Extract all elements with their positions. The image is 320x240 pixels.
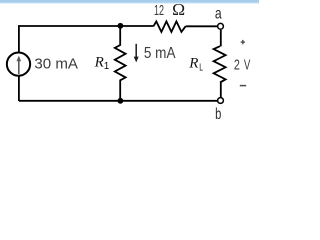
svg-text:30 mA: 30 mA	[34, 55, 78, 72]
junction dot bottom	[118, 98, 124, 104]
svg-text:L: L	[199, 63, 203, 74]
minus sign	[240, 85, 246, 87]
label RL	[188, 55, 203, 73]
svg-text:12: 12	[154, 2, 164, 19]
svg-text:R: R	[188, 55, 198, 71]
svg-text:Ω: Ω	[172, 0, 185, 19]
current arrow 5 mA	[134, 44, 139, 63]
label R1	[94, 54, 110, 72]
node a	[218, 23, 224, 29]
label b	[215, 106, 221, 123]
label a	[215, 6, 222, 23]
wire top left segment	[19, 26, 121, 101]
wire bottom segment	[19, 100, 217, 102]
label 12 ohm	[154, 0, 185, 19]
resistor RL	[214, 46, 226, 82]
wire top middle segment	[120, 25, 153, 27]
svg-text:2: 2	[234, 56, 240, 73]
resistor 12 ohm	[153, 21, 185, 32]
label 2 V	[234, 56, 251, 73]
svg-text:5 mA: 5 mA	[144, 45, 176, 62]
current source I 30 mA	[7, 52, 30, 75]
wire node a to RL	[220, 30, 222, 47]
label 5 mA	[144, 45, 176, 62]
svg-text:1: 1	[104, 61, 110, 72]
resistor R1	[115, 26, 126, 101]
node b	[218, 98, 224, 104]
plus sign	[241, 40, 245, 44]
label 30 mA	[34, 55, 78, 72]
wire RL to node b	[220, 82, 222, 97]
svg-text:R: R	[94, 54, 104, 70]
svg-text:V: V	[244, 56, 251, 73]
svg-text:a: a	[215, 6, 222, 23]
wire top right segment	[186, 25, 218, 27]
junction dot top	[118, 23, 124, 29]
svg-text:b: b	[215, 106, 221, 123]
